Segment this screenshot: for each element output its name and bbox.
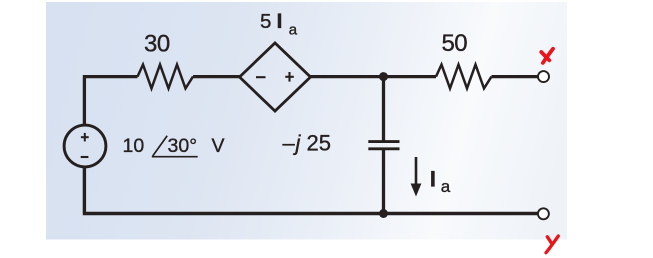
wire: top-left from source top to resistor 30	[83, 77, 138, 126]
terminal Y (open circle)	[538, 208, 549, 219]
svg-text:25: 25	[307, 130, 331, 155]
marker Y (red)	[546, 236, 558, 253]
svg-text:–: –	[283, 130, 296, 155]
svg-text:50: 50	[441, 30, 467, 57]
terminal X (open circle)	[538, 71, 549, 82]
wire: resistor 30 to dependent source	[193, 75, 240, 78]
label: -j25	[283, 130, 331, 155]
svg-text:a: a	[441, 177, 451, 196]
resistor 50 (zigzag)	[436, 65, 492, 89]
resistor 30 (zigzag)	[138, 65, 194, 89]
wire: node A down to capacitor	[382, 77, 385, 142]
label: 5 Ia (controlling value above diamond)	[260, 9, 298, 38]
current arrow Ia	[411, 157, 422, 197]
wire: source bottom to bottom rail	[83, 167, 538, 214]
label: 10 /30 deg V	[123, 135, 225, 157]
dependent source U1 (diamond 5Ia)	[240, 43, 311, 111]
svg-text:30°: 30°	[168, 135, 198, 157]
wire: dependent source to node A	[311, 75, 437, 78]
voltage source V1	[64, 125, 106, 167]
svg-text:30: 30	[144, 30, 170, 57]
svg-text:I: I	[277, 9, 283, 33]
svg-text:I: I	[430, 167, 436, 192]
wire: resistor 50 to terminal X	[492, 75, 538, 78]
capacitor -j25	[368, 142, 399, 149]
wire: capacitor to bottom rail	[382, 149, 385, 214]
marker X (red)	[541, 49, 553, 63]
svg-text:V: V	[212, 135, 225, 157]
node B (bottom junction dot)	[379, 209, 388, 218]
svg-text:a: a	[289, 22, 298, 39]
svg-text:5: 5	[260, 10, 271, 33]
node A (top junction dot)	[379, 72, 388, 81]
label: Ia (branch current)	[430, 167, 451, 196]
svg-text:10: 10	[123, 135, 145, 157]
